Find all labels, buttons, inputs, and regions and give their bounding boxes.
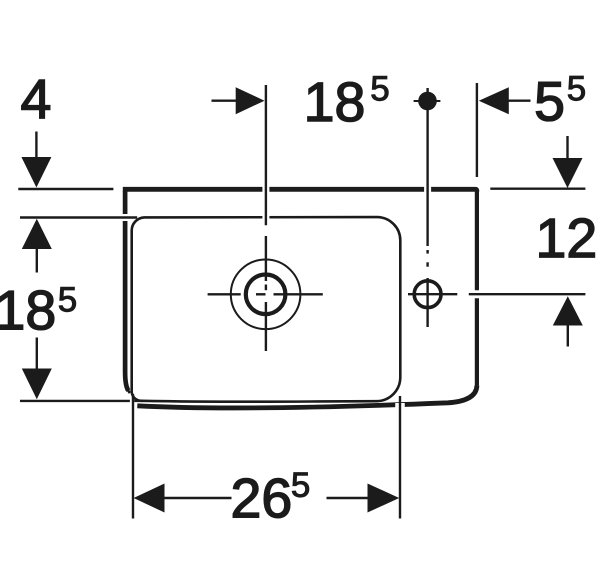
svg-text:5: 5 <box>567 69 586 108</box>
svg-text:18: 18 <box>0 279 56 341</box>
svg-text:5: 5 <box>370 69 389 108</box>
svg-text:18: 18 <box>304 71 366 133</box>
drain hole outer circle <box>231 260 301 330</box>
svg-text:5: 5 <box>291 466 310 505</box>
tap hole crosshair horizontal <box>408 293 457 295</box>
dim-5.5/12 top-right reference line <box>490 187 585 189</box>
dim-26.5 left extension line <box>132 394 134 519</box>
outer basin top edge <box>123 189 477 191</box>
drain hole inner circle <box>246 275 286 315</box>
dim-12 reference line <box>470 290 585 298</box>
dim-5.5 reference line vertical <box>476 83 478 177</box>
dim-4/18.5 shared reference line (inner rim level) <box>20 214 128 221</box>
drain crosshair vertical <box>265 285 267 291</box>
dim-18.5-left arrow down <box>36 338 38 370</box>
tap hole crosshair vertical <box>426 278 428 327</box>
svg-text:26: 26 <box>230 467 292 529</box>
dim-5.5 arrow left <box>479 87 509 114</box>
svg-text:5: 5 <box>534 70 565 132</box>
inner basin outline <box>132 217 401 402</box>
dim-18.5 bottom reference line <box>20 400 130 402</box>
dim-4 top reference line <box>18 188 113 190</box>
drain crosshair horizontal <box>208 293 241 295</box>
svg-text:5: 5 <box>58 280 77 319</box>
tap position dot <box>418 92 437 111</box>
outer basin left edge <box>125 191 128 391</box>
svg-text:12: 12 <box>536 207 597 269</box>
dim-26.5 right extension line <box>395 403 405 519</box>
dim-26.5 arrow right <box>327 497 369 499</box>
dim-4 arrow down <box>35 132 37 159</box>
tap position dot tick <box>414 100 441 102</box>
tap-hole centre line vertical <box>424 101 431 246</box>
svg-text:4: 4 <box>20 68 51 130</box>
dim-12 arrow down <box>566 136 568 159</box>
dim-26.5 arrow left <box>134 484 165 513</box>
dim-18.5-top arrow right <box>212 99 238 101</box>
outer basin bottom edge <box>137 386 477 409</box>
dim-12 arrow up <box>553 296 583 325</box>
tap hole circle <box>414 281 441 308</box>
dim-18.5-left arrow up <box>22 219 52 249</box>
drain centre line vertical <box>262 86 269 225</box>
outer basin right edge <box>475 191 479 386</box>
